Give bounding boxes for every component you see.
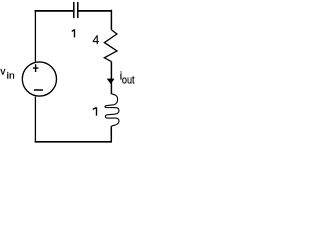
svg-text:out: out xyxy=(122,75,135,87)
plus sign xyxy=(33,64,39,72)
wire left vertical upper xyxy=(34,10,36,62)
voltage source circle vin xyxy=(22,62,56,96)
svg-text:4: 4 xyxy=(93,33,100,47)
wire resistor to inductor xyxy=(110,62,112,94)
wire top-left horizontal (source top to capacitor) xyxy=(35,10,74,12)
wire right vertical upper xyxy=(110,10,112,30)
current arrow head for iout xyxy=(107,79,114,83)
svg-text:v: v xyxy=(0,67,5,78)
wire bottom horizontal xyxy=(35,141,112,143)
wire right vertical lower xyxy=(110,126,112,141)
inductor value label 1 xyxy=(93,107,97,115)
capacitor C plates xyxy=(74,2,78,18)
minus sign xyxy=(34,89,43,91)
resistor zigzag xyxy=(104,30,117,62)
svg-text:in: in xyxy=(7,71,15,82)
inductor coil xyxy=(105,94,119,127)
capacitor value label 1 xyxy=(72,29,75,37)
wire top-right horizontal (capacitor to resistor) xyxy=(78,10,112,12)
wire left vertical lower xyxy=(34,97,36,143)
